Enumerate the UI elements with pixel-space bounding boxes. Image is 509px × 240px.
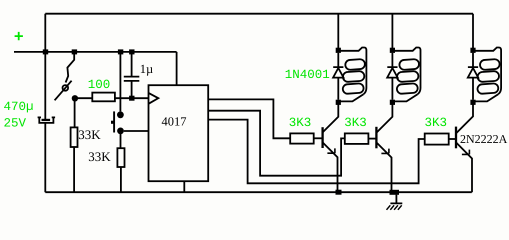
transistor Q1 collector [323, 102, 339, 132]
wire Vdd drop to 4017 [176, 52, 178, 85]
wire output O2 [208, 111, 345, 176]
wire capacitor C1 branch lower [44, 123, 46, 193]
wire top rail [45, 13, 473, 15]
arrow emitter Q2 [381, 149, 389, 154]
earth hatches [387, 205, 402, 210]
resistor R3 33K vertical [117, 148, 124, 167]
wire R6 to Q3 base [449, 138, 456, 140]
wire reset to 4017 [124, 130, 149, 132]
transistor Q3 collector [456, 102, 473, 133]
transistor Q2 base bar [375, 127, 377, 149]
svg-text:470µ: 470µ [4, 100, 34, 114]
clock input triangle [149, 93, 159, 104]
diode D3 1N4001 [468, 53, 478, 100]
svg-text:2N2222A: 2N2222A [460, 132, 508, 146]
svg-text:33K: 33K [88, 149, 111, 164]
junction rail-cap [43, 49, 48, 54]
wire 4017 ground pin [183, 181, 185, 192]
switch S1 lever [55, 81, 72, 101]
junction node-C2 vert [129, 96, 134, 101]
coil L2 [392, 48, 420, 102]
svg-text:100: 100 [88, 78, 111, 92]
junction coil3 bottom [470, 100, 475, 105]
diode D2 1N4001 [387, 53, 397, 100]
capacitor C1 470u plus plate [42, 119, 51, 121]
resistor R2 33K vertical [71, 127, 78, 147]
wire button to 33K no.2 [120, 134, 122, 149]
switch S1 contact dot [72, 95, 78, 101]
svg-text:4017: 4017 [162, 114, 187, 128]
svg-text:25V: 25V [4, 116, 27, 130]
earth symbol stem [390, 195, 402, 204]
wire R4 to Q1 base [314, 137, 323, 139]
resistor R6 3K3 [425, 134, 449, 145]
label plus [15, 32, 23, 40]
junction ground-emitter Q2 and earth [390, 190, 400, 195]
capacitor C2 1u plates [124, 77, 140, 81]
svg-text:3K3: 3K3 [289, 116, 312, 130]
wire vertical through C2 [131, 52, 133, 99]
resistor R5 3K3 [345, 133, 369, 144]
svg-text:3K3: 3K3 [344, 116, 367, 130]
pushbutton SB1 bottom contact [117, 127, 124, 134]
svg-text:1N4001: 1N4001 [285, 68, 330, 82]
wire 33K no.2 lower [120, 167, 122, 192]
wire +V rail [14, 51, 177, 53]
junction coil2 bottom [390, 100, 395, 105]
wire capacitor C1 branch upper [44, 52, 46, 119]
wire top-left drop [44, 14, 46, 52]
pushbutton SB1 top contact [117, 111, 124, 118]
junction rail-button vert [118, 49, 123, 54]
resistor R1 100 [92, 93, 115, 102]
junction coil1 bottom [336, 100, 341, 105]
wire R5 to Q2 base [368, 138, 376, 140]
junction coil2 top [390, 48, 395, 53]
transistor Q3 base bar [455, 127, 457, 149]
wire 33K no.1 branch upper [74, 101, 76, 128]
coil L3 [473, 48, 501, 102]
transistor Q1 emitter [323, 142, 338, 192]
transistor Q3 emitter [456, 142, 472, 192]
switch S1 pivot circle [63, 85, 69, 91]
wire switch branch from rail [66, 53, 75, 82]
wire vertical rail-to-button [119, 52, 121, 112]
arrow emitter Q1 [327, 148, 335, 153]
wire output O3 [208, 120, 425, 184]
IC U1 4017 box [149, 85, 209, 181]
coil L1 [338, 48, 366, 102]
wire node line left [75, 97, 92, 99]
diode D1 1N4001 [333, 53, 343, 100]
junction coil3 top [470, 48, 475, 53]
resistor R4 3K3 [290, 133, 314, 143]
junction coil1 top [336, 48, 341, 53]
junction ground-emitter Q1 [336, 190, 342, 195]
pushbutton SB1 nub [111, 121, 114, 124]
junction rail-C2 vert [129, 49, 134, 54]
wire rail drop to coil 1 [337, 14, 339, 49]
transistor Q1 base bar [321, 127, 323, 148]
transistor Q2 emitter [376, 142, 391, 192]
wire output O1 [208, 99, 290, 138]
wire top-right drop to coil 3 [472, 14, 474, 49]
transistor Q2 collector [376, 102, 392, 132]
svg-text:33K: 33K [78, 127, 101, 142]
wire rail drop to coil 2 [391, 14, 393, 49]
ground rail [45, 191, 472, 193]
junction rail-switch [72, 49, 77, 54]
pushbutton SB1 actuator bar [113, 111, 115, 132]
arrow emitter Q3 [462, 150, 470, 155]
wire 33K no.1 branch lower [73, 147, 75, 192]
svg-text:1µ: 1µ [140, 62, 153, 76]
wire node line right to clock [115, 97, 149, 99]
svg-text:3K3: 3K3 [425, 116, 448, 130]
capacitor C1 470u cup plate [38, 117, 56, 123]
